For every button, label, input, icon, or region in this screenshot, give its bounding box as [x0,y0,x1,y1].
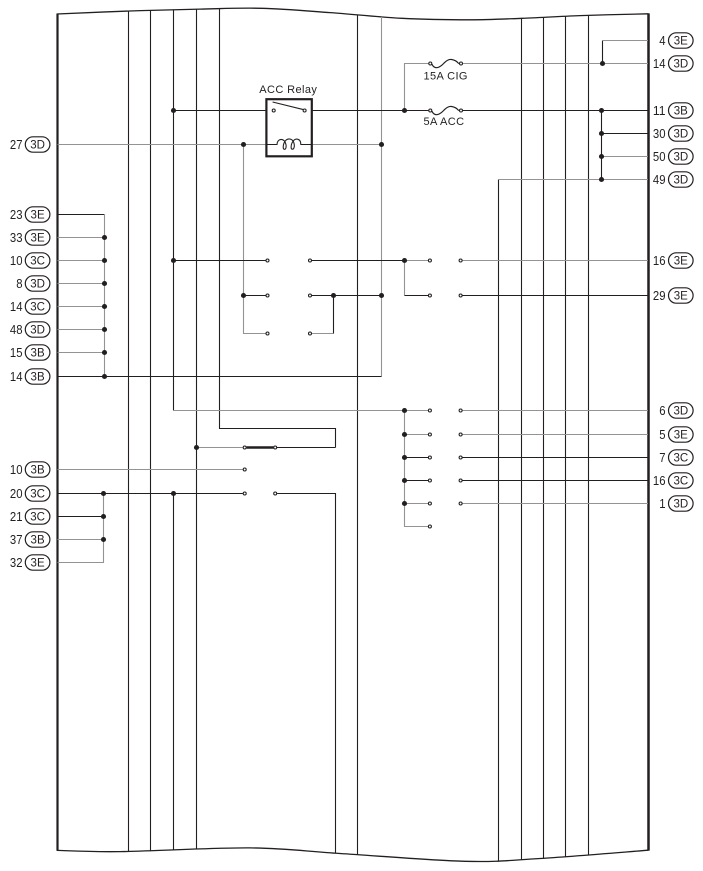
junction coil branch left [241,142,246,147]
wire row 4(3E) [603,40,649,42]
junction block right border [647,13,650,850]
junction 11-3B column [599,108,604,113]
svg-text:3E: 3E [674,256,688,268]
wire vertical v13 [521,18,523,859]
junction left bus 10 [102,258,107,263]
junction 50-3D [599,154,604,159]
wire row 8(3D) [58,283,105,285]
contact pin 16(3C) a [428,479,431,482]
wire vertical v5 with elbow to closed contact [220,9,336,448]
terminal label 14 3D [653,56,693,71]
terminal label 14 3B [10,369,50,384]
contact pin 20(3C) a [243,492,246,495]
contact pin 16(3C) b [459,479,462,482]
junction left bus 15 [102,350,107,355]
junction relay feed [171,108,176,113]
wire vertical v15 [565,16,567,857]
junction 16-3E right [402,258,407,263]
fuse 5A ACC right pin [460,109,463,112]
wire row 1(3D) right segment [462,503,648,505]
wire row 16(3C) right segment [462,480,648,482]
svg-text:3D: 3D [30,279,45,291]
wire row 5(3E) right segment [462,434,648,436]
terminal label 50 3D [653,149,693,164]
terminal label 7 3C [659,450,693,465]
contact pin 16(3E) row c [428,259,431,262]
wire vertical v3 upper segment [173,10,175,411]
relay ACC Relay box [266,99,311,156]
contact pin 10(3B) [243,468,246,471]
svg-text:8: 8 [16,276,22,291]
wire vertical v3 lower segment [173,494,175,850]
terminal label 10 3C [10,253,50,268]
contact pin 5(3E) a [428,433,431,436]
terminal label 15 3B [10,345,50,360]
contact pin 16(3E) row b [309,259,312,262]
wire row 20(3C) [58,493,243,495]
junction 29-3E mid [331,293,336,298]
contact pin 29(3E) row d [459,294,462,297]
terminal label 8 3D [16,276,50,291]
svg-text:15A CIG: 15A CIG [424,71,468,83]
junction left bus 14 [102,304,107,309]
wire row 14(3C) [58,306,105,308]
junction left bus 14b [102,374,107,379]
junction left bus 8 [102,281,107,286]
contact pin row526 [428,525,431,528]
svg-text:4: 4 [659,33,665,48]
svg-text:29: 29 [653,288,666,303]
junction lower bus 20 [101,491,106,496]
wire vertical v17 upper link [602,41,604,64]
closed contact bar [247,446,274,449]
wire row 16(3E) left segments [174,260,405,262]
wire vertical v12 from 49-3D [498,180,500,862]
junction lower bus 37 [101,537,106,542]
svg-text:15: 15 [10,345,23,360]
junction 14-3D [600,61,605,66]
svg-text:3B: 3B [674,106,688,118]
junction 16-3E left [171,258,176,263]
svg-text:23: 23 [10,207,23,222]
svg-text:5A ACC: 5A ACC [424,116,465,128]
contact pin 20(3C) b [274,492,277,495]
wire vertical v11c bus [405,411,429,527]
wire row 29(3E) left stub [244,295,266,297]
wire row 10(3C) [58,260,105,262]
terminal label 30 3D [653,126,693,141]
svg-text:3E: 3E [31,210,45,222]
svg-text:3B: 3B [31,465,45,477]
terminal label 23 3E [10,207,50,222]
svg-text:14: 14 [10,369,23,384]
wire row 16(3E) gray stub [405,260,429,262]
junction 29-3E right [379,293,384,298]
closed contact pin a [243,446,246,449]
svg-text:3E: 3E [674,430,688,442]
svg-text:27: 27 [10,137,23,152]
wire row 15(3B) [58,352,105,354]
wire vertical v8 row20 drop [277,494,335,854]
wire row 29(3E) middle segment [312,295,382,297]
contact pin row333 a [266,332,269,335]
svg-text:3C: 3C [30,489,45,501]
svg-text:3E: 3E [31,558,45,570]
junction block left border [56,14,58,851]
fuse 5A ACC element [432,106,459,114]
terminal label 49 3D [653,172,693,187]
wire row 1(3D) stub [405,503,429,505]
junction left bus 33 [102,235,107,240]
wire left bus vertical [104,214,106,377]
svg-text:3C: 3C [30,512,45,524]
wire row 7(3C) stub [405,457,429,459]
wire row 27(3D) coil feed [58,144,382,146]
contact pin 6(3D) b [459,409,462,412]
wire vertical v6 gray coil branch [244,145,266,334]
wire row 33(3E) [58,237,105,239]
wire row 16(3C) stub [405,480,429,482]
relay coil L1 [266,139,311,149]
svg-text:20: 20 [10,486,23,501]
terminal label 21 3C [10,509,50,524]
svg-text:3D: 3D [673,175,688,187]
wire row 14(3D) fed by fuse 15A [463,63,648,65]
closed contact pin b [274,446,277,449]
junction closed contact feed [194,445,199,450]
svg-text:3D: 3D [673,129,688,141]
junction lower bus 21 [101,514,106,519]
terminal label 1 3D [659,496,693,511]
svg-text:37: 37 [10,532,23,547]
wire row 29(3E) right segment [462,295,648,297]
wire row 6(3D) right segment [462,410,648,412]
svg-text:21: 21 [10,509,23,524]
wire vertical v14 [543,17,545,858]
contact pin 6(3D) a [428,409,431,412]
svg-text:3D: 3D [673,59,688,71]
contact pin 7(3C) b [459,456,462,459]
terminal label 11 3B [653,103,693,118]
contact pin 5(3E) b [459,433,462,436]
svg-text:5: 5 [659,427,665,442]
svg-text:16: 16 [653,473,666,488]
wire vertical v7 contact link [333,296,335,334]
wire row 21(3C) [58,516,104,518]
contact pin 29(3E) row a [266,294,269,297]
fuse 15A CIG left pin [429,62,432,65]
svg-text:10: 10 [10,253,23,268]
relay switch contact right pin [303,109,306,112]
junction right bus 1 [402,501,407,506]
svg-text:1: 1 [659,496,665,511]
contact pin 16(3E) row d [459,259,462,262]
terminal label 16 3C [653,473,693,488]
wire vertical v11b contact branch [404,261,406,296]
terminal label 33 3E [10,230,50,245]
junction left bus 48 [102,327,107,332]
wire row 30(3D) [602,133,649,135]
svg-text:3D: 3D [30,325,45,337]
contact pin 29(3E) row b [309,294,312,297]
svg-text:3E: 3E [674,36,688,48]
svg-text:3D: 3D [673,499,688,511]
svg-text:48: 48 [10,322,23,337]
junction 29-3E left [241,293,246,298]
svg-text:3C: 3C [673,453,688,465]
contact pin 1(3D) b [459,502,462,505]
junction block torn bottom edge [57,848,649,862]
terminal label 20 3C [10,486,50,501]
svg-text:49: 49 [653,172,666,187]
terminal label 5 3E [659,427,693,442]
svg-text:3D: 3D [30,140,45,152]
wire vertical v1 [128,11,130,851]
junction 30-3D [599,131,604,136]
svg-text:11: 11 [653,103,666,118]
junction right bus 5 [402,432,407,437]
junction 49-3D [599,177,604,182]
wire contact row333 gray lead [312,333,334,335]
wire row 5(3E) stub [405,434,429,436]
svg-text:6: 6 [659,403,665,418]
svg-text:3C: 3C [30,302,45,314]
contact pin row333 b [309,332,312,335]
terminal label 14 3C [10,299,50,314]
svg-text:7: 7 [659,450,665,465]
terminal label 32 3E [10,555,50,570]
terminal label 10 3B [10,462,50,477]
svg-text:30: 30 [653,126,666,141]
wire row 11(3B) relay switch feed [174,110,649,112]
junction right bus 7 [402,455,407,460]
fuse 15A CIG right pin [460,62,463,65]
svg-text:16: 16 [653,253,666,268]
wire fuse 15A lead left [429,63,431,65]
wire vertical v4 [196,9,198,849]
relay switch contact left pin [272,109,275,112]
wire row 6(3D) elbow from v3 [174,410,405,412]
wire row 16(3E) right segment [462,260,648,262]
wire row 23(3E) [58,214,106,216]
svg-text:10: 10 [10,462,23,477]
relay switch arm [273,102,304,110]
svg-text:33: 33 [10,230,23,245]
svg-text:3C: 3C [30,256,45,268]
fuse 15A CIG element [432,59,459,67]
junction block torn top edge [57,8,649,20]
terminal label 37 3B [10,532,50,547]
wire row 14(3B) [58,376,382,378]
svg-text:3B: 3B [31,535,45,547]
svg-text:32: 32 [10,555,23,570]
junction coil branch right [379,142,384,147]
svg-text:3E: 3E [674,291,688,303]
terminal label 16 3E [653,253,693,268]
wire row 48(3D) [58,329,105,331]
wire closed contact feed [197,447,243,449]
wire closed contact to v5 elbow [277,447,336,449]
wire vertical v17 lower black link [601,111,603,180]
junction row20 v3 [171,491,176,496]
svg-text:3D: 3D [673,152,688,164]
terminal label 29 3E [653,288,693,303]
wire row 32(3E) with bus elbow [58,494,104,563]
svg-text:50: 50 [653,149,666,164]
svg-text:3B: 3B [31,348,45,360]
terminal label 48 3D [10,322,50,337]
junction right bus 16 [402,478,407,483]
junction fuse branch [402,108,407,113]
wire vertical v10 gray [381,17,383,377]
wire row 10(3B) [58,469,243,471]
contact pin 1(3D) a [428,502,431,505]
terminal label 6 3D [659,403,693,418]
contact pin 29(3E) row c [428,294,431,297]
wire vertical v2 [150,10,152,850]
wire vertical v11a fuse branch [405,64,429,111]
svg-text:3C: 3C [673,476,688,488]
wire row 6(3D) stub [405,410,429,412]
wire vertical v9 [357,15,359,855]
terminal label 4 3E [659,33,693,48]
wire vertical v16 [588,15,590,855]
svg-text:3D: 3D [673,406,688,418]
wire row 49(3D) [499,179,649,181]
svg-text:14: 14 [653,56,666,71]
svg-text:3B: 3B [31,372,45,384]
svg-text:ACC Relay: ACC Relay [259,84,317,96]
svg-text:14: 14 [10,299,23,314]
contact pin 16(3E) row a [266,259,269,262]
wire row 29(3E) elbow lead [405,295,429,297]
contact pin 7(3C) a [428,456,431,459]
terminal label 27 3D [10,137,50,152]
svg-text:3E: 3E [31,233,45,245]
wire row 37(3B) [58,539,104,541]
wire row 50(3D) [602,156,649,158]
junction right bus 6 [402,408,407,413]
fuse 5A ACC left pin [429,109,432,112]
wire row 7(3C) right segment [462,457,648,459]
